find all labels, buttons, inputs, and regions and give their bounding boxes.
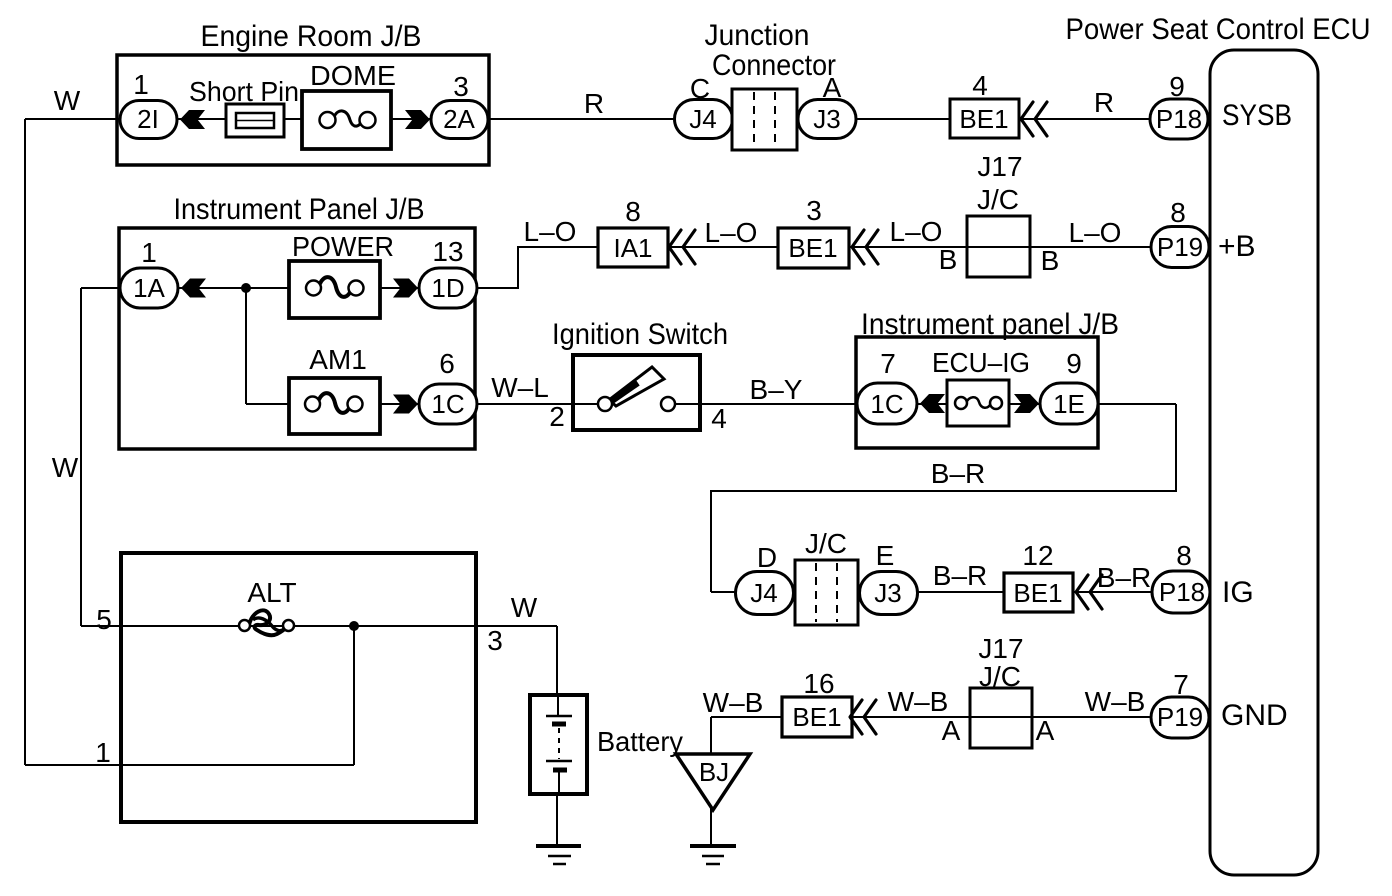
svg-text:5: 5 — [96, 604, 112, 635]
svg-text:L–O: L–O — [524, 216, 577, 247]
svg-text:1: 1 — [95, 737, 111, 768]
wire BJ to ground — [710, 808, 712, 846]
svg-text:P18: P18 — [1156, 104, 1202, 134]
svg-text:1C: 1C — [431, 389, 464, 419]
svg-text:1C: 1C — [870, 389, 903, 419]
junction J17 J/C square — [967, 216, 1030, 277]
svg-text:P18: P18 — [1159, 577, 1205, 607]
svg-text:W–B: W–B — [888, 686, 949, 717]
connector P19 (GND) — [1151, 697, 1209, 738]
wire ALT dot drop — [353, 626, 355, 765]
connector J4 (junction connector) — [675, 100, 733, 139]
svg-text:B–R: B–R — [933, 560, 987, 591]
svg-text:B–R: B–R — [1097, 562, 1151, 593]
svg-text:Power Seat Control ECU: Power Seat Control ECU — [1066, 13, 1371, 46]
connector BE1 (3) — [778, 228, 849, 268]
wire row2 +B — [518, 246, 1210, 248]
junction connector block (IG row) — [795, 560, 858, 625]
arrow into 1A — [181, 279, 206, 298]
svg-text:8: 8 — [625, 196, 641, 227]
svg-text:Short Pin: Short Pin — [189, 76, 299, 107]
connector J4 (IG row) — [736, 572, 794, 615]
fuse AM1 box — [289, 378, 380, 434]
svg-text:7: 7 — [1173, 669, 1189, 700]
svg-text:W: W — [511, 592, 538, 623]
svg-text:J17: J17 — [978, 633, 1023, 664]
ground (battery) — [536, 844, 581, 848]
svg-text:2: 2 — [549, 401, 565, 432]
svg-text:DOME: DOME — [310, 60, 396, 91]
svg-text:R: R — [584, 88, 604, 119]
svg-text:ECU–IG: ECU–IG — [932, 347, 1030, 378]
chevrons BE1 row4 — [1076, 575, 1102, 609]
svg-text:R: R — [1094, 87, 1114, 118]
connector P19 (+B) — [1151, 227, 1209, 268]
svg-text:Battery: Battery — [597, 726, 683, 757]
arrow into 1D — [393, 279, 418, 298]
wire 1A left vertical — [80, 288, 82, 626]
chevrons BE1 row5 — [850, 700, 876, 734]
connector BE1 (16) — [782, 697, 852, 737]
svg-text:D: D — [757, 542, 777, 573]
connector BE1 (12) — [1004, 573, 1073, 612]
arrow into 2A — [405, 110, 430, 129]
svg-text:2I: 2I — [137, 104, 159, 134]
junction dot ALT — [349, 621, 359, 631]
wire BJ drop — [710, 717, 712, 756]
junction connector block — [732, 89, 797, 150]
wire row POWER — [81, 287, 477, 289]
svg-text:B–R: B–R — [931, 458, 985, 489]
arrow into 1C — [393, 395, 418, 414]
svg-text:1D: 1D — [431, 273, 464, 303]
svg-text:Connector: Connector — [712, 49, 836, 82]
wire bottom to ALT pin1 — [25, 764, 354, 766]
Power Seat Control ECU box — [1210, 50, 1318, 875]
svg-text:Instrument panel J/B: Instrument panel J/B — [861, 308, 1119, 341]
connector P18 (SYSB) — [1150, 99, 1208, 139]
connector 1C (panel) — [857, 383, 917, 424]
ignition switch box — [573, 355, 700, 430]
chevrons BE1 row2 — [852, 230, 878, 264]
connector 1E — [1040, 383, 1098, 424]
svg-text:J/C: J/C — [979, 661, 1021, 692]
connector 2I — [120, 101, 177, 139]
svg-text:J4: J4 — [689, 104, 716, 134]
connector 1D — [419, 268, 477, 308]
wire battery to ground — [556, 792, 558, 846]
svg-text:W: W — [52, 452, 79, 483]
wire B-R elbow — [711, 404, 1176, 592]
svg-text:BJ: BJ — [699, 757, 729, 787]
svg-text:W–B: W–B — [1085, 686, 1146, 717]
fuse POWER box — [289, 261, 380, 318]
wire ALT row — [81, 625, 557, 627]
ground (BJ) — [690, 844, 736, 848]
wire POWER junction drop — [245, 288, 247, 404]
Engine Room J/B box — [117, 55, 489, 165]
chevrons BE1 row1 — [1021, 102, 1047, 136]
svg-text:B–Y: B–Y — [750, 374, 803, 405]
svg-text:J4: J4 — [750, 578, 777, 608]
junction dot POWER — [241, 283, 251, 293]
svg-text:13: 13 — [432, 236, 463, 267]
arrow into 1C (panel) — [920, 394, 945, 413]
ALT box — [121, 553, 476, 822]
svg-text:SYSB: SYSB — [1222, 99, 1292, 132]
svg-text:4: 4 — [972, 70, 988, 101]
svg-text:1E: 1E — [1053, 389, 1085, 419]
svg-text:3: 3 — [487, 625, 503, 656]
svg-text:2A: 2A — [443, 104, 475, 134]
arrow into 1E — [1014, 394, 1039, 413]
ALT fuse — [249, 610, 288, 635]
connector BE1 (4) — [950, 99, 1019, 138]
svg-text:4: 4 — [711, 403, 727, 434]
svg-text:BE1: BE1 — [792, 702, 841, 732]
fuse DOME wave — [334, 111, 363, 126]
connector 1C — [419, 384, 477, 424]
svg-text:9: 9 — [1066, 348, 1082, 379]
chevrons IA1 — [669, 230, 695, 264]
wire row AM1/ignition — [246, 403, 1176, 405]
svg-text:L–O: L–O — [705, 217, 758, 248]
battery — [530, 695, 587, 794]
svg-text:J/C: J/C — [805, 528, 847, 559]
ignition switch contacts — [598, 397, 612, 411]
connector 2A — [431, 101, 488, 139]
svg-text:3: 3 — [806, 195, 822, 226]
svg-text:Junction: Junction — [705, 19, 810, 52]
wire W left vertical — [24, 119, 26, 765]
svg-text:8: 8 — [1170, 197, 1186, 228]
svg-text:B: B — [939, 244, 958, 275]
svg-text:L–O: L–O — [890, 216, 943, 247]
short pin component — [226, 104, 284, 137]
svg-text:6: 6 — [439, 348, 455, 379]
Instrument Panel J/B box — [119, 228, 475, 449]
svg-text:16: 16 — [803, 668, 834, 699]
svg-text:J/C: J/C — [977, 184, 1019, 215]
svg-text:IA1: IA1 — [613, 233, 652, 263]
svg-text:W: W — [54, 85, 81, 116]
svg-text:BE1: BE1 — [959, 104, 1008, 134]
ground BJ triangle — [676, 754, 750, 810]
svg-text:ALT: ALT — [247, 577, 296, 608]
svg-text:9: 9 — [1169, 71, 1185, 102]
svg-text:GND: GND — [1221, 699, 1288, 732]
svg-text:A: A — [1036, 715, 1055, 746]
svg-text:12: 12 — [1022, 540, 1053, 571]
connector 1A — [120, 268, 178, 308]
svg-text:P19: P19 — [1157, 702, 1203, 732]
svg-text:Engine Room J/B: Engine Room J/B — [201, 20, 422, 53]
svg-text:+B: +B — [1218, 230, 1256, 263]
wire battery drop — [556, 626, 558, 697]
svg-text:W–B: W–B — [703, 687, 764, 718]
svg-text:B: B — [1041, 245, 1060, 276]
svg-text:E: E — [876, 540, 895, 571]
connector J3 (IG row) — [860, 572, 918, 615]
svg-text:W–L: W–L — [491, 372, 549, 403]
svg-text:J3: J3 — [813, 104, 840, 134]
ignition lever — [609, 367, 664, 406]
svg-text:BE1: BE1 — [788, 233, 837, 263]
fuse ECU-IG box — [947, 380, 1009, 426]
svg-text:AM1: AM1 — [309, 344, 367, 375]
svg-text:POWER: POWER — [292, 231, 394, 262]
svg-text:IG: IG — [1222, 576, 1254, 609]
svg-text:L–O: L–O — [1069, 217, 1122, 248]
arrow into 2I — [180, 110, 205, 129]
svg-text:1A: 1A — [133, 273, 165, 303]
svg-text:J17: J17 — [977, 151, 1022, 182]
connector IA1 (8) — [598, 228, 668, 267]
svg-text:3: 3 — [453, 71, 469, 102]
Instrument panel J/B (ECU-IG) box — [856, 337, 1098, 448]
svg-text:J3: J3 — [874, 578, 901, 608]
svg-text:Ignition Switch: Ignition Switch — [552, 318, 728, 351]
connector J3 — [798, 100, 856, 139]
svg-text:C: C — [690, 73, 710, 104]
svg-text:7: 7 — [880, 348, 896, 379]
wire row4 IG — [711, 591, 1210, 593]
svg-text:8: 8 — [1176, 540, 1192, 571]
fuse AM1 wave — [318, 393, 351, 413]
svg-text:1: 1 — [141, 237, 157, 268]
svg-text:Instrument Panel J/B: Instrument Panel J/B — [174, 193, 425, 226]
fuse POWER wave — [319, 277, 352, 297]
svg-text:1: 1 — [133, 69, 149, 100]
svg-text:A: A — [942, 715, 961, 746]
svg-text:BE1: BE1 — [1013, 578, 1062, 608]
junction J17 J/C square (GND) — [970, 688, 1032, 748]
connector P18 (IG) — [1152, 571, 1210, 613]
wire row5 GND — [711, 716, 1210, 718]
wire row1 SYSB — [25, 118, 1210, 120]
fuse ECU-IG wave — [966, 397, 991, 408]
wire 1D to L-O riser — [477, 247, 598, 288]
svg-text:P19: P19 — [1157, 232, 1203, 262]
fuse DOME box — [302, 91, 391, 149]
